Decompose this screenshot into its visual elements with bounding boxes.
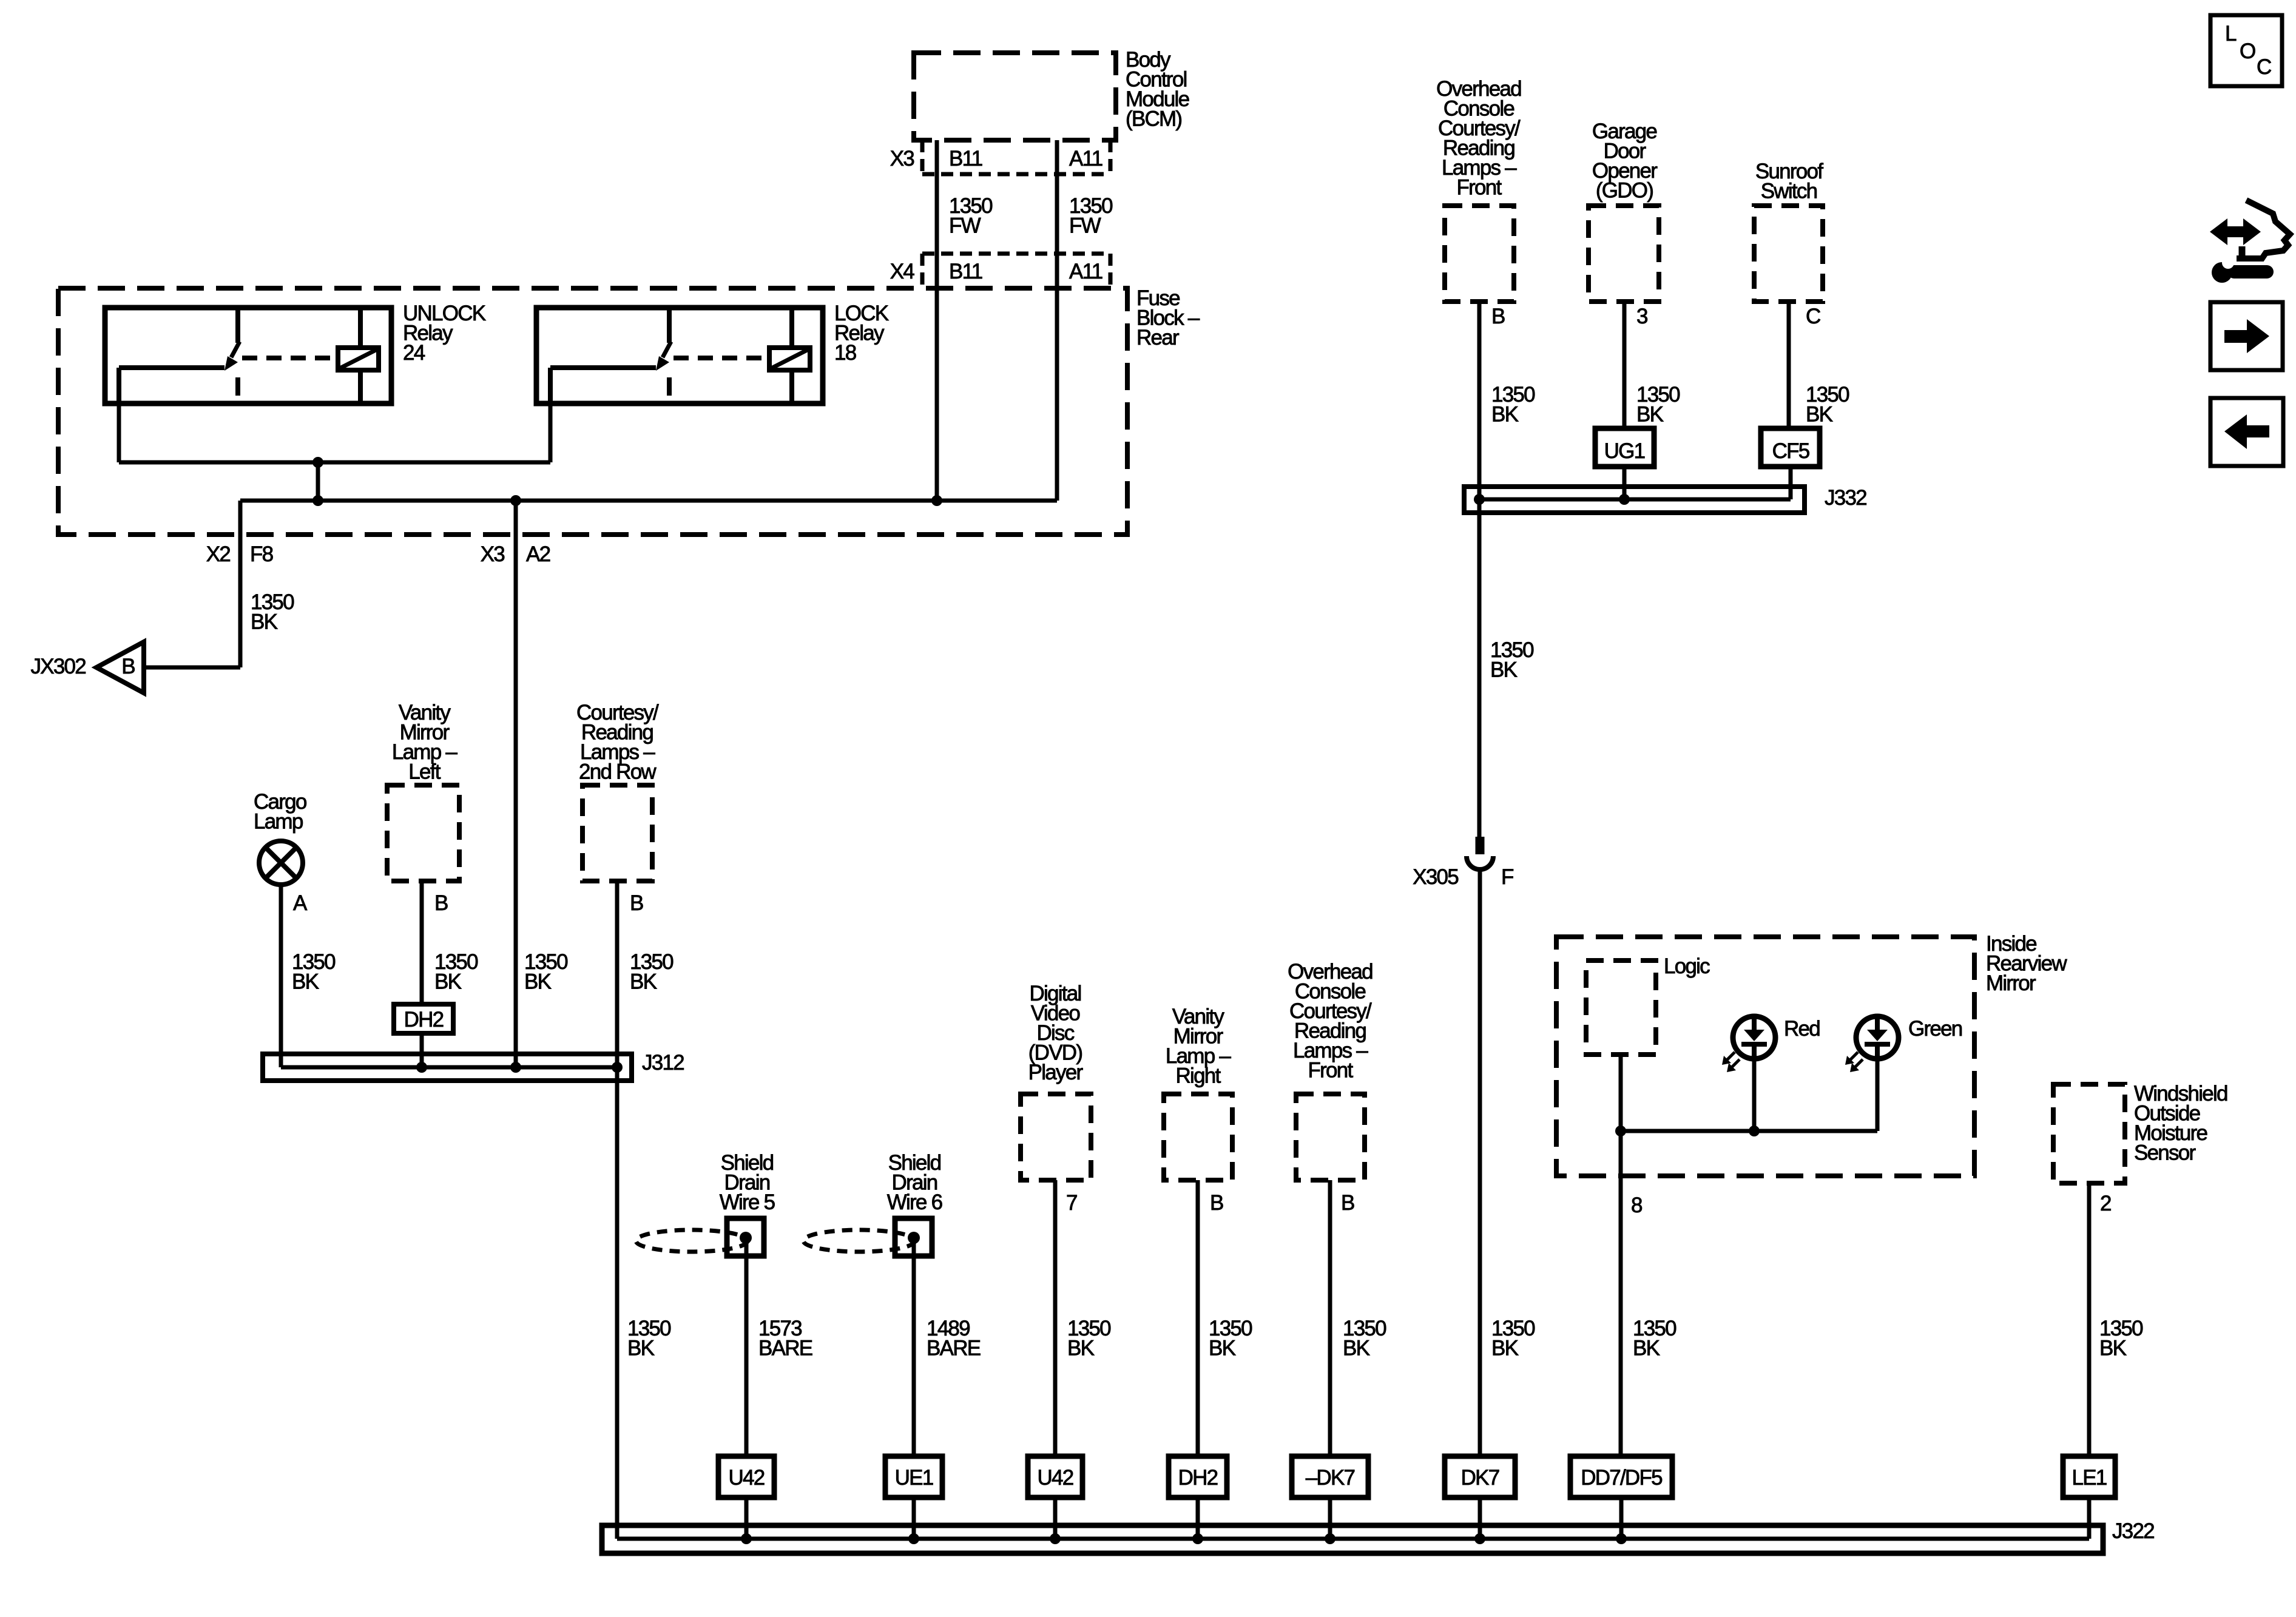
- svg-text:F: F: [1501, 865, 1513, 889]
- wire output bus horizontal in fuse block: [240, 499, 1057, 503]
- svg-text:Rear: Rear: [1136, 326, 1180, 349]
- LED Green indicator: [1845, 1016, 1899, 1072]
- svg-text:DH2: DH2: [1178, 1466, 1218, 1490]
- component Windshield Outside Moisture Sensor dashed box: [2053, 1084, 2125, 1183]
- svg-text:B: B: [1210, 1191, 1223, 1215]
- svg-text:BK: BK: [2099, 1337, 2127, 1360]
- label 1350 BK on F8 wire: [251, 590, 294, 634]
- svg-text:BK: BK: [1491, 1337, 1519, 1360]
- label 1573 BARE: [758, 1317, 812, 1360]
- wire relay bus horizontal: [119, 461, 550, 465]
- terminal UE1 box: [885, 1456, 942, 1497]
- junction J312 at down wire: [612, 1062, 623, 1073]
- component Garage Door Opener (GDO) dashed box: [1589, 206, 1659, 302]
- module U1 Body Control Module (BCM) dashed box: [914, 53, 1116, 140]
- svg-text:A2: A2: [526, 542, 550, 566]
- terminal DK7 box: [1445, 1456, 1515, 1497]
- label LOCK Relay 18: [834, 302, 889, 365]
- svg-text:U42: U42: [729, 1466, 765, 1490]
- svg-text:X2: X2: [206, 542, 231, 566]
- label 1350 BK above X305: [1490, 638, 1534, 682]
- junction J322 at x=1230: [741, 1533, 752, 1544]
- lamp Cargo Lamp symbol: [259, 841, 303, 885]
- svg-text:BK: BK: [1491, 403, 1519, 427]
- component Sunroof Switch dashed box: [1754, 206, 1823, 302]
- svg-text:B11: B11: [949, 147, 982, 170]
- label 1350 BK on J312-J322 wire: [627, 1317, 671, 1360]
- block Logic dashed box: [1586, 960, 1656, 1055]
- terminal U42 box (DVD): [1028, 1456, 1082, 1497]
- svg-text:L: L: [2225, 22, 2237, 46]
- svg-text:A11: A11: [1069, 147, 1102, 170]
- svg-text:B: B: [434, 891, 448, 915]
- svg-text:Player: Player: [1028, 1061, 1084, 1084]
- label 1350 FW left: [949, 194, 993, 238]
- svg-text:J322: J322: [2112, 1519, 2154, 1543]
- svg-text:Wire 6: Wire 6: [887, 1190, 942, 1214]
- svg-text:Red: Red: [1784, 1017, 1820, 1041]
- component Overhead Console Courtesy/Reading Lamps - Front dashed box (top): [1445, 206, 1514, 302]
- svg-text:–DK7: –DK7: [1306, 1466, 1355, 1490]
- junction J322 at x=2192: [1325, 1533, 1335, 1544]
- label Overhead Console Courtesy/Reading Lamps - Front (bottom): [1288, 960, 1373, 1082]
- svg-text:BK: BK: [434, 970, 462, 994]
- label Courtesy/Reading Lamps - 2nd Row: [576, 701, 659, 784]
- wire red LED to internal bus: [1752, 1059, 1757, 1131]
- relay LOCK Relay 18: [536, 308, 823, 403]
- svg-text:BK: BK: [251, 610, 278, 634]
- wire CF5 to J332: [1789, 467, 1793, 499]
- wire U42 dvd terminal to J322: [1053, 1497, 1058, 1539]
- wire 1350 BK 2nd row lamps to J312: [615, 881, 620, 1067]
- label 1350 BK on overhead front wire: [1491, 383, 1535, 427]
- svg-text:BARE: BARE: [758, 1337, 812, 1360]
- svg-text:DK7: DK7: [1461, 1466, 1499, 1490]
- connector JX302 triangle: [96, 642, 144, 693]
- terminal U42 box (drain 5): [718, 1456, 774, 1497]
- terminal DH2 box (vanity right): [1169, 1456, 1227, 1497]
- svg-text:Lamp: Lamp: [254, 810, 303, 834]
- svg-text:BK: BK: [1343, 1337, 1370, 1360]
- svg-text:Right: Right: [1176, 1064, 1221, 1088]
- junction output bus at X3-A2 branch: [510, 495, 521, 506]
- wire 1350 BK from fuse block X2-F8 to JX302: [144, 501, 240, 667]
- svg-text:BK: BK: [292, 970, 319, 994]
- svg-text:X3: X3: [890, 147, 914, 170]
- wire 1350 BK from J312 to J322: [615, 1067, 620, 1539]
- svg-text:B: B: [630, 891, 643, 915]
- label 1350 BK on overhead console bottom wire: [1343, 1317, 1386, 1360]
- label 1350 BK on A2 wire: [524, 950, 568, 994]
- label Vanity Mirror Lamp - Left: [392, 701, 458, 784]
- svg-text:X4: X4: [890, 260, 915, 283]
- svg-text:Mirror: Mirror: [1986, 971, 2036, 995]
- svg-text:Sensor: Sensor: [2134, 1141, 2196, 1165]
- label 1489 BARE: [927, 1317, 981, 1360]
- svg-text:BK: BK: [1636, 403, 1664, 427]
- label 1350 BK above LE1: [2099, 1317, 2143, 1360]
- wire DH2 to J312: [420, 1033, 424, 1067]
- ground splice J322 bus bar: [602, 1525, 2103, 1553]
- svg-text:B: B: [1491, 305, 1505, 328]
- svg-text:A11: A11: [1069, 260, 1102, 283]
- junction internal bus at logic wire: [1615, 1126, 1626, 1136]
- svg-text:BARE: BARE: [927, 1337, 981, 1360]
- svg-text:BK: BK: [1209, 1337, 1236, 1360]
- wire 1350 BK from mirror pin 8 to DD7/DF5: [1619, 1131, 1623, 1456]
- svg-text:BK: BK: [1067, 1337, 1095, 1360]
- junction output bus at B11 wire: [931, 495, 942, 506]
- svg-text:8: 8: [1631, 1193, 1642, 1217]
- svg-text:B: B: [1341, 1191, 1354, 1215]
- junction J322 at x=2439: [1474, 1533, 1485, 1544]
- junction relay bus: [312, 457, 323, 468]
- wire LE1 terminal to J322: [2087, 1497, 2092, 1539]
- svg-text:B11: B11: [949, 260, 982, 283]
- svg-text:U42: U42: [1038, 1466, 1073, 1490]
- component Vanity Mirror Lamp - Right dashed box: [1164, 1094, 1232, 1180]
- junction J332 at UG1 wire: [1619, 494, 1630, 505]
- junction J322 at x=1506: [908, 1533, 919, 1544]
- terminal LE1 box: [2063, 1456, 2115, 1497]
- terminal -DK7 box: [1292, 1456, 1368, 1497]
- svg-text:BK: BK: [630, 970, 657, 994]
- wire DD7/DF5 terminal to J322: [1619, 1497, 1624, 1539]
- label Inside Rearview Mirror: [1986, 932, 2067, 995]
- label 1350 BK on cargo lamp wire: [292, 950, 336, 994]
- connector X305 inline symbol: [1467, 837, 1493, 869]
- svg-text:F8: F8: [250, 542, 273, 566]
- wire relay bus down to output bus: [316, 462, 320, 501]
- label Fuse Block - Rear: [1136, 286, 1200, 349]
- shield Shield Drain Wire 5 symbol: [636, 1218, 764, 1256]
- wire 1350 BK overhead console front to J332: [1477, 302, 1482, 499]
- label 1350 BK on GDO wire: [1636, 383, 1680, 427]
- wire 1350 BK sunroof switch to CF5: [1787, 302, 1791, 428]
- relay UNLOCK Relay 24: [105, 308, 391, 403]
- svg-text:O: O: [2240, 39, 2255, 63]
- wire 1350 BK from J332 down to X305: [1477, 499, 1482, 837]
- junction J312 at DH2 wire: [416, 1062, 427, 1073]
- terminal DH2 box: [394, 1004, 453, 1033]
- wire unlock relay common to relay bus: [117, 403, 121, 462]
- svg-text:DH2: DH2: [404, 1008, 444, 1031]
- wire green LED to internal bus: [1876, 1059, 1880, 1131]
- svg-text:BK: BK: [1633, 1337, 1660, 1360]
- label 1350 FW right: [1069, 194, 1113, 238]
- svg-text:Front: Front: [1457, 176, 1502, 200]
- component Digital Video Disc (DVD) Player dashed box: [1021, 1094, 1091, 1180]
- wire 1350 BK from fuse block X3-A2 to J312: [514, 501, 518, 1067]
- svg-text:7: 7: [1066, 1191, 1077, 1215]
- component Overhead Console Courtesy/Reading Lamps - Front dashed box (bottom): [1296, 1094, 1365, 1180]
- fuse block - rear dashed box: [58, 288, 1127, 535]
- terminal DD7/DF5 box: [1570, 1456, 1672, 1497]
- previous-page arrow box: [2210, 398, 2283, 466]
- svg-text:JX302: JX302: [31, 655, 86, 678]
- wire U42 drain5 terminal to J322: [745, 1497, 749, 1539]
- next-page arrow box: [2210, 302, 2283, 370]
- svg-text:BK: BK: [1806, 403, 1833, 427]
- label 1350 BK on DVD wire: [1067, 1317, 1111, 1360]
- svg-text:Left: Left: [408, 760, 441, 784]
- label Shield Drain Wire 6: [887, 1151, 942, 1214]
- shield Shield Drain Wire 6 symbol: [803, 1218, 932, 1256]
- splice J312 bus bar: [263, 1054, 632, 1081]
- wire 1489 BARE drain 6 to UE1: [912, 1243, 916, 1456]
- wire 1350 FW from BCM X3-A11 to fuse block X4-A11: [1055, 140, 1059, 501]
- label Sunroof Switch: [1755, 160, 1823, 203]
- label Shield Drain Wire 5: [720, 1151, 775, 1214]
- junction internal bus at red LED: [1749, 1126, 1760, 1136]
- svg-text:DD7/DF5: DD7/DF5: [1581, 1466, 1662, 1490]
- terminal UG1 box: [1595, 428, 1654, 467]
- label 1350 BK above DD7/DF5: [1633, 1317, 1676, 1360]
- svg-text:UG1: UG1: [1604, 439, 1645, 463]
- svg-text:CF5: CF5: [1772, 439, 1809, 463]
- svg-text:BK: BK: [627, 1337, 655, 1360]
- wire 1350 BK DVD player to U42: [1053, 1180, 1058, 1456]
- svg-text:LE1: LE1: [2071, 1466, 2106, 1490]
- svg-text:BK: BK: [524, 970, 552, 994]
- wire 1573 BARE drain 5 to U42: [745, 1243, 749, 1456]
- LED Red indicator: [1722, 1016, 1775, 1072]
- svg-text:X305: X305: [1413, 865, 1458, 889]
- wire 1350 BK vanity right to DH2 terminal: [1196, 1180, 1200, 1456]
- svg-text:2: 2: [2100, 1192, 2111, 1215]
- label Windshield Outside Moisture Sensor: [2134, 1082, 2227, 1165]
- label 1350 BK on vanity left wire: [434, 950, 478, 994]
- svg-text:BK: BK: [1490, 658, 1518, 682]
- wire 1350 FW from BCM X3-B11 to fuse block X4-B11: [935, 140, 939, 501]
- svg-text:24: 24: [403, 341, 425, 365]
- svg-text:Wire 5: Wire 5: [720, 1190, 775, 1214]
- component Courtesy/Reading Lamps - 2nd Row dashed box: [582, 785, 652, 881]
- label Cargo Lamp: [254, 790, 306, 834]
- door-lock service icon: [2210, 200, 2290, 283]
- svg-text:18: 18: [834, 341, 856, 365]
- svg-text:3: 3: [1636, 305, 1647, 328]
- svg-text:(GDO): (GDO): [1596, 179, 1653, 203]
- splice J332 bus bar: [1464, 487, 1805, 513]
- label 1350 BK on 2nd row wire: [630, 950, 674, 994]
- wire 1350 BK sensor to LE1: [2087, 1183, 2092, 1456]
- wire 1350 BK from X305 to DK7 terminal: [1478, 868, 1482, 1456]
- svg-text:C: C: [2257, 55, 2271, 79]
- label 1350 BK above DK7: [1491, 1317, 1535, 1360]
- wire internal bus horizontal: [1621, 1129, 1877, 1133]
- svg-text:Logic: Logic: [1664, 954, 1710, 978]
- connector X3 row of BCM: [890, 140, 1110, 174]
- svg-text:2nd Row: 2nd Row: [579, 760, 657, 784]
- svg-text:J312: J312: [642, 1051, 684, 1075]
- wire -DK7 terminal to J322: [1328, 1497, 1332, 1539]
- wire logic to internal bus: [1619, 1055, 1623, 1131]
- junction J322 at x=2672: [1616, 1533, 1627, 1544]
- wire DH2 terminal to J322: [1196, 1497, 1200, 1539]
- junction J312 at A2 wire: [510, 1062, 521, 1073]
- wire 1350 BK vanity left to DH2: [420, 881, 424, 1004]
- svg-text:UE1: UE1: [895, 1466, 933, 1490]
- label Body Control Module (BCM): [1126, 48, 1189, 131]
- svg-text:(BCM): (BCM): [1126, 107, 1181, 131]
- label Overhead Console Courtesy/Reading Lamps - Front (top): [1436, 77, 1521, 200]
- wire DK7 terminal to J322: [1478, 1497, 1482, 1539]
- label Vanity Mirror Lamp - Right: [1166, 1005, 1232, 1088]
- terminal CF5 box: [1761, 428, 1820, 467]
- wire UE1 terminal to J322: [912, 1497, 916, 1539]
- component Inside Rearview Mirror dashed box: [1556, 937, 1974, 1176]
- label 1350 BK on vanity right wire: [1209, 1317, 1252, 1360]
- junction J322 at x=1974: [1192, 1533, 1203, 1544]
- svg-text:A: A: [293, 891, 308, 915]
- label Digital Video Disc (DVD) Player: [1028, 982, 1084, 1084]
- label 1350 BK on sunroof wire: [1806, 383, 1849, 427]
- svg-text:FW: FW: [1069, 214, 1101, 238]
- svg-text:B: B: [121, 655, 135, 678]
- component Vanity Mirror Lamp - Left dashed box: [387, 785, 459, 881]
- svg-text:Front: Front: [1308, 1059, 1354, 1082]
- label Garage Door Opener (GDO): [1592, 120, 1658, 203]
- wire UG1 to J332: [1622, 467, 1627, 499]
- wire 1350 BK cargo lamp to J312: [279, 883, 283, 1067]
- LOC legend box: [2210, 15, 2282, 86]
- junction output bus at X2-F8 branch: [312, 495, 323, 506]
- svg-text:Green: Green: [1908, 1017, 1962, 1041]
- svg-text:FW: FW: [949, 214, 981, 238]
- wire lock relay common to relay bus: [549, 403, 553, 462]
- connector X4 row of fuse block: [890, 254, 1110, 288]
- label UNLOCK Relay 24: [403, 302, 486, 365]
- svg-text:C: C: [1806, 305, 1820, 328]
- svg-text:J332: J332: [1825, 486, 1866, 510]
- wire 1350 BK GDO to UG1: [1622, 302, 1627, 428]
- wire 1350 BK overhead console to -DK7 terminal: [1328, 1180, 1332, 1456]
- junction J322 at x=1739: [1050, 1533, 1061, 1544]
- svg-text:Switch: Switch: [1761, 180, 1817, 203]
- svg-text:X3: X3: [481, 542, 505, 566]
- junction J332 at overhead front wire: [1474, 494, 1485, 505]
